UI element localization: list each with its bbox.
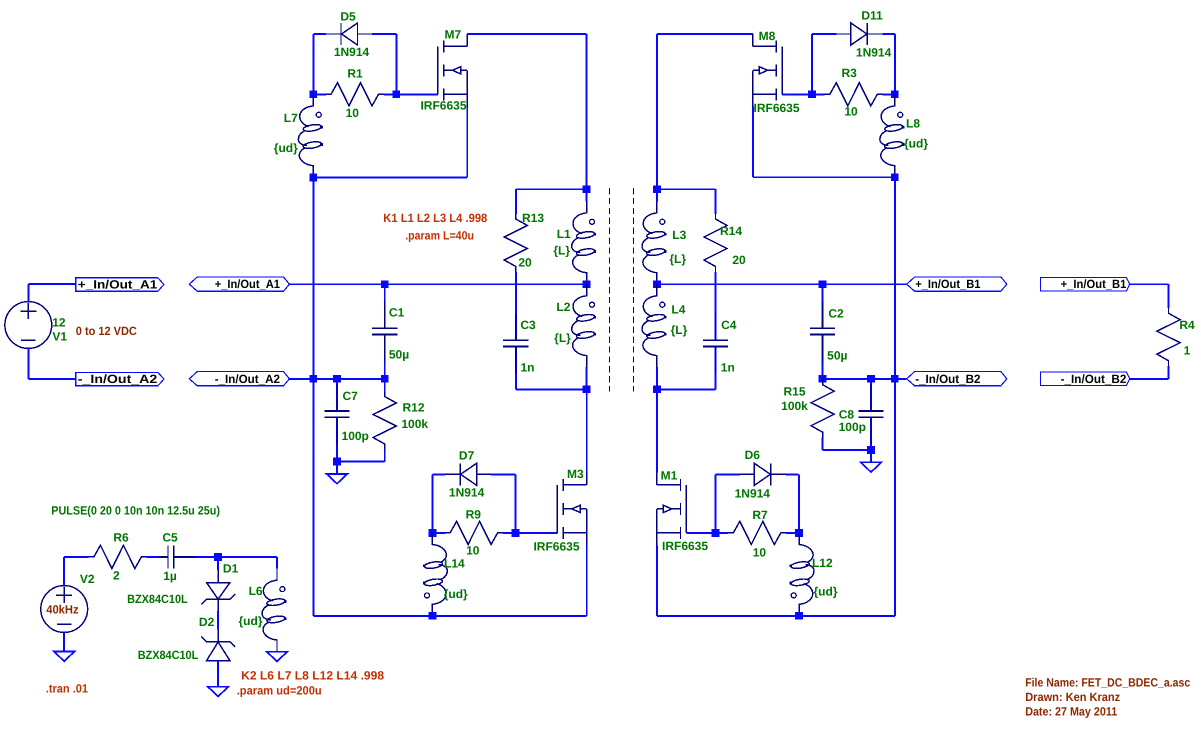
label ud L6 xyxy=(239,614,263,628)
inductor L4 xyxy=(642,284,667,367)
label L7 xyxy=(284,111,298,125)
wire net A2 xyxy=(289,378,384,380)
label C3 xyxy=(520,318,536,332)
net flag +_In/Out_A1 xyxy=(189,277,289,291)
svg-text:1N914: 1N914 xyxy=(856,46,892,60)
inductor L12 xyxy=(790,533,815,616)
spice directive K2 xyxy=(241,669,384,683)
wire bottom rail left xyxy=(313,615,586,617)
diode D11 xyxy=(812,23,895,45)
junction xfmr left mid xyxy=(583,280,591,288)
wire C3 bottom xyxy=(516,388,587,390)
diode D6 xyxy=(716,463,799,485)
voltage source V2 xyxy=(41,586,88,633)
svg-text:1: 1 xyxy=(1184,343,1191,357)
svg-text:D2: D2 xyxy=(199,615,215,629)
junction L7 bottom xyxy=(309,174,317,182)
svg-text:K1 L1 L2 L3 L4 .998: K1 L1 L2 L3 L4 .998 xyxy=(383,211,487,225)
svg-text:50µ: 50µ xyxy=(389,348,409,362)
svg-text:100p: 100p xyxy=(839,420,866,434)
label C4 xyxy=(721,318,737,332)
junction R3 right xyxy=(891,90,899,98)
label 1N914 D6 xyxy=(735,487,771,501)
wire M3 drain xyxy=(586,389,588,472)
zener D2 xyxy=(201,630,235,673)
svg-text:-_In/Out_A2: -_In/Out_A2 xyxy=(215,372,281,386)
wire R15 bottom xyxy=(823,449,871,451)
ground C7 xyxy=(327,474,348,484)
wire V2 top xyxy=(64,557,76,586)
label IRF6635 M3 xyxy=(533,540,579,554)
svg-text:.param L=40u: .param L=40u xyxy=(405,228,474,242)
resistor R9 xyxy=(432,521,515,544)
junction R7 right xyxy=(795,529,803,537)
junction xfmr left top xyxy=(583,185,591,193)
label 20 R14 xyxy=(732,253,746,267)
inductor L3 xyxy=(642,201,667,284)
wire left bus xyxy=(312,177,314,615)
wire D7 left xyxy=(431,474,433,533)
wire M7 drain xyxy=(467,34,586,189)
label 10 R9 xyxy=(466,543,480,557)
svg-text:R15: R15 xyxy=(783,384,805,398)
svg-text:{ud}: {ud} xyxy=(274,141,298,155)
spice directive param ud xyxy=(237,684,322,698)
diode D7 xyxy=(432,463,515,485)
label R1 xyxy=(347,67,363,81)
svg-text:100k: 100k xyxy=(781,399,808,413)
label 100k R15 xyxy=(781,399,808,413)
wire M8 gate xyxy=(782,93,812,95)
svg-text:{ud}: {ud} xyxy=(239,614,263,628)
junction L14 bottom xyxy=(429,612,437,620)
net flag +_In/Out_B1 xyxy=(907,277,1007,291)
junction xfmr right mid xyxy=(653,280,661,288)
label 10 R7 xyxy=(753,546,767,560)
label L L3 xyxy=(669,252,686,266)
junction C1 bottom xyxy=(381,375,389,383)
label D2 xyxy=(199,615,215,629)
net flag -_In/Out_B2 xyxy=(907,372,1007,386)
svg-text:L12: L12 xyxy=(812,556,833,570)
label C5 xyxy=(162,531,178,545)
comment 0 to 12 VDC xyxy=(76,324,137,338)
label M3 xyxy=(567,467,584,481)
port flag -_In/Out_B2 xyxy=(1040,372,1129,386)
wire R14 top xyxy=(657,189,716,201)
wire D5 right xyxy=(395,34,397,94)
svg-text:R4: R4 xyxy=(1179,318,1195,332)
wire L6 top xyxy=(218,557,277,569)
svg-text:M7: M7 xyxy=(444,28,461,42)
label D5 xyxy=(340,10,356,24)
svg-text:IRF6635: IRF6635 xyxy=(662,539,708,553)
svg-text:+_In/Out_A1: +_In/Out_A1 xyxy=(78,278,158,292)
svg-text:+_In/Out_B1: +_In/Out_B1 xyxy=(915,277,981,291)
svg-text:IRF6635: IRF6635 xyxy=(420,98,466,112)
label BZX84C10L D2 xyxy=(138,648,199,662)
resistor R7 xyxy=(716,521,799,544)
spice directive param L xyxy=(405,228,474,242)
svg-text:-_In/Out_B2: -_In/Out_B2 xyxy=(1061,372,1127,386)
svg-text:R3: R3 xyxy=(842,66,858,80)
label 50u C2 xyxy=(827,348,847,362)
resistor R15 xyxy=(811,367,834,450)
svg-text:D1: D1 xyxy=(223,562,239,576)
nmos M3 xyxy=(557,473,587,546)
svg-text:D7: D7 xyxy=(459,449,475,463)
ground D2 xyxy=(208,687,229,697)
label C7 xyxy=(343,389,359,403)
svg-text:+_In/Out_B1: +_In/Out_B1 xyxy=(1061,277,1127,291)
svg-text:L2: L2 xyxy=(556,300,570,314)
junction L12 bottom xyxy=(795,612,803,620)
label 100k R12 xyxy=(401,417,428,431)
label V1 xyxy=(52,330,67,344)
svg-text:20: 20 xyxy=(518,255,532,269)
label L14 xyxy=(444,556,465,570)
svg-text:R7: R7 xyxy=(752,508,768,522)
wire B1 to R4 xyxy=(1130,284,1169,295)
label 1n C4 xyxy=(721,361,735,375)
capacitor C4 xyxy=(703,284,728,389)
label R15 xyxy=(783,384,805,398)
svg-text:10: 10 xyxy=(844,105,858,119)
junction R1 right xyxy=(392,90,400,98)
label 10 R3 xyxy=(844,105,858,119)
svg-text:C2: C2 xyxy=(828,307,844,321)
capacitor C7 xyxy=(324,379,349,462)
svg-text:10: 10 xyxy=(466,543,480,557)
wire D11 right xyxy=(894,34,896,94)
wire C8 ground stem xyxy=(870,450,872,462)
wire L3 top xyxy=(656,189,658,201)
spice directive tran xyxy=(46,681,88,695)
label 1u C5 xyxy=(163,569,177,583)
core line left xyxy=(609,188,611,392)
label R3 xyxy=(842,66,858,80)
junction bus A2 xyxy=(309,375,317,383)
label R14 xyxy=(720,224,742,238)
comment date xyxy=(1025,704,1117,718)
junction xfmr left bottom xyxy=(583,385,591,393)
label 10 R1 xyxy=(346,106,360,120)
svg-text:C4: C4 xyxy=(721,318,737,332)
label 1N914 D7 xyxy=(449,485,485,499)
label C2 xyxy=(828,307,844,321)
label IRF6635 M7 xyxy=(420,98,466,112)
resistor R1 xyxy=(313,83,396,106)
port flag +_In/Out_B1 xyxy=(1040,277,1129,291)
svg-text:R13: R13 xyxy=(522,211,544,225)
label M8 xyxy=(759,29,776,43)
resistor R13 xyxy=(504,201,527,284)
svg-text:R1: R1 xyxy=(347,67,363,81)
label 12 xyxy=(52,316,66,330)
junction R9 right xyxy=(512,529,520,537)
wire R12 bottom xyxy=(337,460,385,462)
capacitor C2 xyxy=(810,284,835,379)
junction xfmr right top xyxy=(653,185,661,193)
resistor R3 xyxy=(812,83,895,106)
resistor R6 xyxy=(76,545,159,568)
junction C8 top xyxy=(867,375,875,383)
label ud L12 xyxy=(814,585,838,599)
capacitor C8 xyxy=(858,379,883,450)
label 20 R13 xyxy=(518,255,532,269)
resistor R12 xyxy=(373,379,396,462)
label C1 xyxy=(389,305,405,319)
wire net B1 xyxy=(657,283,907,285)
label BZX84C10L D1 xyxy=(127,592,188,606)
svg-text:10: 10 xyxy=(346,106,360,120)
core line right xyxy=(633,188,635,392)
wire net B2 xyxy=(823,378,907,380)
junction R9 left xyxy=(429,529,437,537)
wire L1 top xyxy=(586,189,588,201)
svg-text:{L}: {L} xyxy=(553,244,570,258)
svg-text:20: 20 xyxy=(732,253,746,267)
wire D5 left xyxy=(312,34,314,94)
comment drawn by xyxy=(1025,690,1120,704)
net flag -_In/Out_A2 xyxy=(189,372,289,386)
svg-text:R12: R12 xyxy=(402,401,424,415)
svg-text:V1: V1 xyxy=(52,330,67,344)
wire R13 top xyxy=(516,189,587,201)
svg-text:L7: L7 xyxy=(284,111,298,125)
comment file name xyxy=(1025,675,1190,689)
svg-text:C1: C1 xyxy=(389,305,405,319)
junction C7 top xyxy=(333,375,341,383)
label L4 xyxy=(671,302,685,316)
capacitor C3 xyxy=(503,284,528,389)
svg-text:L6: L6 xyxy=(249,584,263,598)
label L1 xyxy=(557,227,571,241)
wire M1 gate xyxy=(686,532,715,534)
label R4 xyxy=(1179,318,1195,332)
junction C1 top xyxy=(381,280,389,288)
label D6 xyxy=(745,448,761,462)
spice directive K1 xyxy=(383,211,487,225)
inductor L8 xyxy=(880,94,905,177)
svg-text:BZX84C10L: BZX84C10L xyxy=(127,592,188,606)
wire M1 source xyxy=(656,545,658,616)
wire C4 bottom xyxy=(657,388,716,390)
junction bus B2 xyxy=(891,375,899,383)
label R9 xyxy=(466,507,482,521)
wire M7 source xyxy=(313,107,467,178)
svg-text:2: 2 xyxy=(113,568,120,582)
wire D11 left xyxy=(811,34,813,94)
svg-text:Drawn: Ken Kranz: Drawn: Ken Kranz xyxy=(1025,690,1120,704)
wire V2 ground stem xyxy=(63,632,65,651)
value PULSE xyxy=(51,504,220,518)
junction R7 left xyxy=(712,529,720,537)
inductor L6 xyxy=(262,569,287,652)
wire D1-D2 xyxy=(217,611,219,630)
wire net A1 to transformer xyxy=(289,283,586,285)
wire D6 right xyxy=(798,474,800,533)
inductor L14 xyxy=(423,533,448,616)
label L12 xyxy=(812,556,833,570)
svg-text:R9: R9 xyxy=(466,507,482,521)
wire C7 ground stem xyxy=(336,461,338,474)
svg-text:{ud}: {ud} xyxy=(814,585,838,599)
label ud L8 xyxy=(904,136,928,150)
svg-text:C3: C3 xyxy=(520,318,536,332)
svg-text:D11: D11 xyxy=(861,9,883,23)
nmos M7 xyxy=(438,34,468,107)
wire D7 right xyxy=(515,474,517,533)
svg-text:{L}: {L} xyxy=(669,252,686,266)
wire M1 drain xyxy=(656,389,658,472)
svg-text:10: 10 xyxy=(753,546,767,560)
svg-text:M8: M8 xyxy=(759,29,776,43)
svg-text:L1: L1 xyxy=(557,227,571,241)
comment 40kHz xyxy=(46,602,78,616)
wire L2 bottom xyxy=(586,367,588,389)
svg-text:PULSE(0 20 0 10n 10n 12.5u 25u: PULSE(0 20 0 10n 10n 12.5u 25u) xyxy=(51,504,220,518)
nmos M8 xyxy=(753,34,783,107)
label M1 xyxy=(661,469,678,483)
label R7 xyxy=(752,508,768,522)
svg-text:0 to 12 VDC: 0 to 12 VDC xyxy=(76,324,137,338)
wire V1 minus to flag xyxy=(28,348,76,379)
label R13 xyxy=(522,211,544,225)
svg-text:D6: D6 xyxy=(745,448,761,462)
label L6 xyxy=(249,584,263,598)
wire M8 drain xyxy=(657,34,753,189)
svg-text:{L}: {L} xyxy=(554,331,571,345)
svg-text:-_In/Out_B2: -_In/Out_B2 xyxy=(915,372,981,386)
wire D6 left xyxy=(715,474,717,533)
svg-text:1n: 1n xyxy=(721,361,735,375)
svg-text:12: 12 xyxy=(52,316,66,330)
junction L8 bottom xyxy=(891,173,899,181)
svg-text:1N914: 1N914 xyxy=(449,485,485,499)
junction R3 left xyxy=(808,90,816,98)
label L2 xyxy=(556,300,570,314)
label R12 xyxy=(402,401,424,415)
label ud L7 xyxy=(274,141,298,155)
svg-text:+_In/Out_A1: +_In/Out_A1 xyxy=(215,277,281,291)
svg-text:50µ: 50µ xyxy=(827,348,847,362)
svg-text:.tran .01: .tran .01 xyxy=(46,681,88,695)
label 1 R4 xyxy=(1184,343,1191,357)
svg-text:{ud}: {ud} xyxy=(444,587,468,601)
svg-text:M3: M3 xyxy=(567,467,584,481)
label ud L14 xyxy=(444,587,468,601)
port flag +_In/Out_A1 xyxy=(76,278,164,292)
label IRF6635 M8 xyxy=(754,101,800,115)
svg-text:{ud}: {ud} xyxy=(904,136,928,150)
ground L6 xyxy=(267,652,288,662)
svg-text:L4: L4 xyxy=(671,302,685,316)
svg-text:K2 L6 L7 L8 L12 L14 .998: K2 L6 L7 L8 L12 L14 .998 xyxy=(241,669,384,683)
svg-text:D5: D5 xyxy=(340,10,356,24)
wire D2 bottom xyxy=(217,660,219,672)
label L L4 xyxy=(671,323,688,337)
nmos M1 xyxy=(657,473,687,546)
label 2 R6 xyxy=(113,568,120,582)
junction C7 bottom xyxy=(333,458,341,466)
wire V1 plus to flag xyxy=(28,284,76,302)
svg-text:R6: R6 xyxy=(113,531,129,545)
junction R1 left xyxy=(309,90,317,98)
wire bottom rail right xyxy=(657,615,895,617)
svg-text:.param ud=200u: .param ud=200u xyxy=(237,684,322,698)
resistor R14 xyxy=(704,201,727,284)
junction C2 top xyxy=(819,280,827,288)
svg-text:100k: 100k xyxy=(401,417,428,431)
label R6 xyxy=(113,531,129,545)
wire M7 gate xyxy=(396,93,438,95)
svg-text:M1: M1 xyxy=(661,469,678,483)
resistor R4 xyxy=(1157,296,1180,379)
wire M3 gate xyxy=(516,532,558,534)
wire M3 source xyxy=(586,545,588,616)
label L8 xyxy=(906,117,920,131)
label L L2 xyxy=(554,331,571,345)
label L L1 xyxy=(553,244,570,258)
svg-text:100p: 100p xyxy=(342,429,369,443)
svg-text:BZX84C10L: BZX84C10L xyxy=(138,648,199,662)
svg-text:File Name: FET_DC_BDEC_a.asc: File Name: FET_DC_BDEC_a.asc xyxy=(1025,675,1190,689)
svg-text:L8: L8 xyxy=(906,117,920,131)
zener D1 xyxy=(201,557,235,623)
svg-text:L14: L14 xyxy=(444,556,465,570)
label C8 xyxy=(839,407,855,421)
wire R4 to B2 xyxy=(1130,378,1169,380)
label 100p C7 xyxy=(342,429,369,443)
label D7 xyxy=(459,449,475,463)
inductor L7 xyxy=(298,94,323,177)
ground V2 xyxy=(54,651,75,661)
svg-text:IRF6635: IRF6635 xyxy=(754,101,800,115)
junction xfmr right bottom xyxy=(653,385,661,393)
svg-text:IRF6635: IRF6635 xyxy=(533,540,579,554)
wire D2 ground stem xyxy=(217,673,219,687)
inductor L2 xyxy=(572,284,597,367)
svg-text:{L}: {L} xyxy=(671,323,688,337)
junction C5 right xyxy=(214,553,222,561)
label D1 xyxy=(223,562,239,576)
svg-text:1µ: 1µ xyxy=(163,569,177,583)
svg-text:C5: C5 xyxy=(162,531,178,545)
inductor L1 xyxy=(572,201,597,284)
wire L4 bottom xyxy=(656,367,658,389)
label 100p C8 xyxy=(839,420,866,434)
voltage source V1 xyxy=(5,302,52,349)
capacitor C5 xyxy=(159,545,218,568)
svg-text:R14: R14 xyxy=(720,224,742,238)
label L3 xyxy=(672,228,686,242)
diode D5 xyxy=(313,23,396,45)
junction C8 bottom xyxy=(867,446,875,454)
svg-text:40kHz: 40kHz xyxy=(46,602,78,616)
ground C8 xyxy=(861,462,882,472)
svg-text:1N914: 1N914 xyxy=(334,45,370,59)
svg-text:C7: C7 xyxy=(343,389,359,403)
label 1N914 D5 xyxy=(334,45,370,59)
svg-text:L3: L3 xyxy=(672,228,686,242)
wire M8 source xyxy=(753,107,895,178)
label D11 xyxy=(861,9,883,23)
label 1N914 D11 xyxy=(856,46,892,60)
svg-text:Date: 27 May 2011: Date: 27 May 2011 xyxy=(1025,704,1117,718)
svg-text:-_In/Out_A2: -_In/Out_A2 xyxy=(78,372,158,386)
label M7 xyxy=(444,28,461,42)
